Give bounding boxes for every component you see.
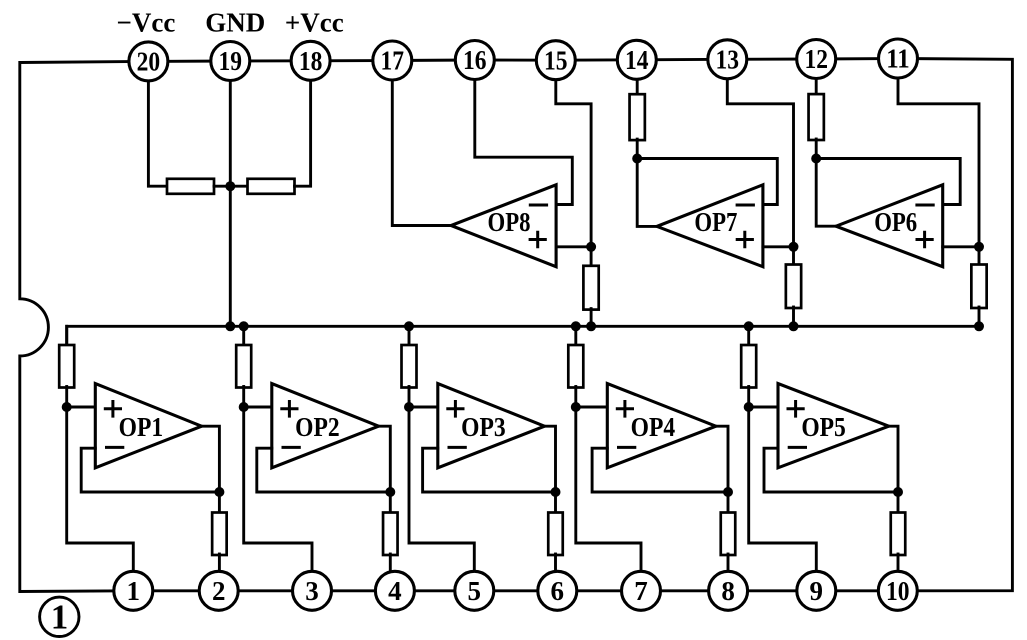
wire OP7 - input feedback [637, 159, 777, 205]
pin 7 [622, 571, 661, 610]
wire - input feedback of OP2 [257, 448, 391, 492]
wire OP2 output [379, 426, 391, 513]
wire + node to pin 5 [409, 407, 474, 572]
node OP2 output/feedback junction [385, 487, 395, 497]
pin 10 [878, 571, 917, 610]
svg-text:19: 19 [219, 46, 243, 76]
wire OP3 output [545, 426, 556, 513]
node GND divider junction [225, 181, 235, 191]
node bus/OP8 resistor [586, 321, 596, 331]
svg-text:OP1: OP1 [119, 412, 164, 442]
pin 9 [797, 571, 836, 610]
node bus/OP5 bias resistor [744, 321, 754, 331]
wire OP8 + input stub [556, 245, 591, 248]
wire OP1 output [202, 426, 220, 513]
wire + node to pin 1 [67, 407, 134, 572]
wire bias resistor to + node [65, 387, 68, 408]
resistor R8b (OP8 + to bus) [583, 266, 598, 310]
wire pin11 to OP6 + input [898, 79, 979, 247]
wire bias resistor to + node [574, 387, 577, 408]
wire output resistor to pin 8 [727, 554, 730, 574]
wire bias resistor to + node [747, 387, 750, 408]
pin 17 [373, 41, 412, 80]
node bus/GND junction [225, 321, 235, 331]
wire OP6 - input feedback [816, 159, 960, 205]
svg-text:1: 1 [127, 576, 141, 606]
wire bias resistor to + node [408, 387, 411, 408]
svg-text:2: 2 [212, 576, 226, 606]
wire pin17 to OP8 output [392, 80, 451, 226]
wire - input feedback of OP3 [423, 448, 556, 492]
svg-text:OP4: OP4 [631, 412, 676, 442]
svg-text:11: 11 [886, 44, 910, 74]
wire + node to pin 9 [749, 407, 817, 572]
wire resistor to bus [792, 307, 795, 326]
pin 12 [797, 40, 836, 79]
resistor R2 (GND to +Vcc divider) [248, 179, 295, 194]
wire output resistor to pin 10 [897, 554, 900, 574]
op-amp OP5 [778, 384, 889, 468]
wire - input feedback of OP1 [81, 448, 219, 492]
wire output resistor to pin 2 [218, 554, 221, 574]
svg-text:3: 3 [305, 576, 319, 606]
wire OP7 + input stub [763, 245, 794, 248]
node OP1 output/feedback junction [214, 487, 224, 497]
wire + input of OP3 [409, 406, 438, 409]
svg-text:OP5: OP5 [801, 412, 846, 442]
wire bus to bias resistor [242, 326, 245, 346]
resistor output R3b (OP3 out to pin 6) [548, 513, 563, 556]
node OP5 + input junction [744, 402, 754, 412]
wire output resistor to pin 6 [554, 554, 557, 574]
wire pin16 to OP8 - input [475, 80, 573, 205]
wire OP6 output [816, 159, 836, 227]
node OP3 + input junction [404, 402, 414, 412]
resistor R6b (OP6 + to bus) [971, 265, 986, 309]
resistor bias R2a (bus to OP2 + input) [236, 345, 251, 388]
svg-text:6: 6 [551, 576, 565, 606]
svg-text:16: 16 [463, 45, 487, 75]
wire R2 to pin18 [295, 80, 311, 186]
wire - input feedback of OP4 [592, 448, 728, 492]
wire R1 to GND node [214, 185, 248, 188]
svg-text:20: 20 [137, 47, 161, 77]
pin 15 [536, 41, 575, 80]
node bus/OP4 bias resistor [571, 321, 581, 331]
wire bus to bias resistor [747, 326, 750, 346]
svg-text:+Vcc: +Vcc [285, 8, 344, 38]
op-amp OP2 [272, 384, 379, 468]
wire pin12 to feedback resistor [815, 79, 818, 95]
wire bus to bias resistor [574, 326, 577, 346]
node bus/OP3 bias resistor [404, 321, 414, 331]
svg-text:13: 13 [716, 45, 740, 75]
wire resistor to bus [590, 309, 593, 327]
svg-text:8: 8 [721, 576, 735, 606]
svg-text:OP6: OP6 [874, 207, 917, 237]
wire + input of OP4 [576, 406, 608, 409]
wire pin14 to feedback resistor [636, 79, 639, 95]
svg-text:1: 1 [51, 598, 69, 637]
wire resistor to node [815, 139, 818, 159]
pin 18 [291, 41, 330, 80]
wire bus to bias resistor [65, 326, 68, 346]
resistor R7b (OP7 + to bus) [786, 265, 801, 309]
resistor output R2b (OP2 out to pin 4) [383, 513, 398, 556]
svg-text:14: 14 [625, 45, 649, 75]
svg-text:OP2: OP2 [295, 412, 340, 442]
pin 20 [129, 42, 168, 81]
svg-text:7: 7 [634, 576, 648, 606]
svg-text:−Vcc: −Vcc [116, 8, 175, 38]
wire + node to pin 7 [576, 407, 641, 572]
svg-text:18: 18 [299, 46, 323, 76]
resistor bias R1a (bus to OP1 + input) [59, 345, 74, 388]
op-amp OP1 [95, 384, 201, 468]
wire - input feedback of OP5 [764, 448, 898, 492]
op-amp OP7 [657, 185, 763, 267]
op-amp OP4 [607, 384, 716, 468]
wire resistor to bus [978, 307, 981, 326]
svg-text:17: 17 [381, 46, 405, 76]
svg-text:OP8: OP8 [488, 207, 531, 237]
svg-text:GND: GND [205, 8, 265, 38]
wire OP4 output [716, 426, 728, 513]
node OP6 + junction [974, 242, 984, 252]
wire pin13 to OP7 + input [727, 79, 793, 247]
svg-text:5: 5 [468, 576, 482, 606]
node OP5 output/feedback junction [893, 487, 903, 497]
figure label (1) [40, 597, 79, 637]
wire bus to bias resistor [408, 326, 411, 346]
pin 1 [114, 571, 153, 610]
wire pin15 to OP8 + input [556, 80, 591, 247]
resistor output R1b (OP1 out to pin 2) [212, 513, 227, 556]
wire + input of OP2 [244, 406, 272, 409]
pin 5 [455, 571, 494, 610]
svg-text:OP7: OP7 [694, 207, 737, 237]
node OP7 + junction [789, 242, 799, 252]
pin 6 [538, 571, 577, 610]
resistor R7a (pin 14 to OP7 node) [630, 94, 645, 140]
wire resistor to node [636, 139, 639, 158]
svg-text:10: 10 [886, 576, 910, 606]
wire pin20 to R1 [148, 81, 167, 186]
wire output resistor to pin 4 [389, 554, 392, 574]
resistor bias R4a (bus to OP4 + input) [568, 345, 583, 388]
wire bias resistor to + node [242, 387, 245, 408]
resistor bias R3a (bus to OP3 + input) [402, 345, 417, 388]
op-amp OP6 [836, 185, 943, 267]
wire OP7 output [637, 159, 657, 227]
wire OP6 + node to resistor [978, 247, 981, 266]
pin 19 [211, 42, 250, 81]
resistor R6a (pin 12 to OP6 node) [809, 94, 824, 140]
resistor output R5b (OP5 out to pin 10) [891, 513, 906, 556]
pin 3 [293, 571, 332, 610]
wire ground bus [67, 326, 979, 345]
node OP1 + input junction [62, 402, 72, 412]
node bus/OP2 bias resistor [239, 321, 249, 331]
wire + input of OP1 [67, 406, 96, 409]
resistor bias R5a (bus to OP5 + input) [741, 345, 756, 388]
svg-text:9: 9 [810, 576, 824, 606]
svg-text:15: 15 [544, 45, 568, 75]
wire OP8 + node to resistor [590, 247, 593, 267]
node bus/OP7 resistor [789, 321, 799, 331]
pin 13 [708, 40, 747, 79]
pin 16 [455, 41, 494, 80]
wire OP6 + input stub [943, 245, 979, 248]
resistor output R4b (OP4 out to pin 8) [721, 513, 736, 556]
node OP4 + input junction [571, 402, 581, 412]
node bus/OP6 resistor [974, 321, 984, 331]
node OP7 output/feedback junction [632, 154, 642, 164]
pin 4 [375, 571, 414, 610]
svg-text:4: 4 [388, 576, 402, 606]
node OP6 output/feedback junction [811, 154, 821, 164]
wire + input of OP5 [749, 406, 778, 409]
wire GND rail pin19 down to bus [229, 81, 232, 327]
pin 8 [709, 571, 748, 610]
node OP2 + input junction [239, 402, 249, 412]
pin 2 [199, 571, 238, 610]
svg-text:OP3: OP3 [461, 412, 506, 442]
op-amp OP8 [451, 185, 556, 267]
svg-text:12: 12 [804, 44, 828, 74]
node OP3 output/feedback junction [551, 487, 561, 497]
wire + node to pin 3 [244, 407, 312, 572]
node OP8 + junction [586, 242, 596, 252]
wire OP5 output [889, 426, 898, 513]
resistor R1 (-Vcc to GND divider) [167, 179, 214, 194]
pin 14 [617, 40, 656, 79]
pin 11 [879, 39, 918, 78]
op-amp OP3 [438, 384, 545, 468]
node OP4 output/feedback junction [723, 487, 733, 497]
wire OP7 + node to resistor [792, 247, 795, 266]
